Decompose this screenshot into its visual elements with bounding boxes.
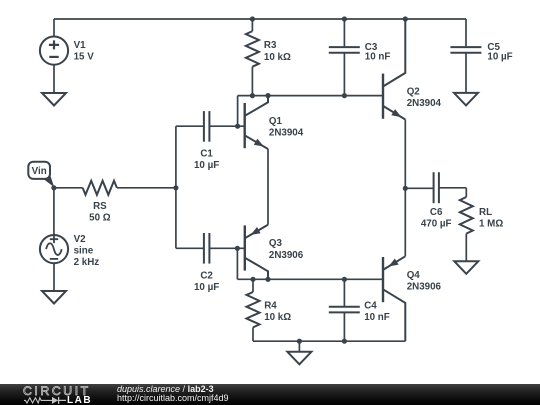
svg-text:2N3904: 2N3904	[269, 128, 304, 139]
wire link to C2	[176, 247, 204, 249]
wire link to C1	[176, 125, 204, 127]
wire V2 to ground	[53, 263, 55, 291]
wire C4 to bottom rail	[343, 312, 345, 341]
ground below V1	[42, 93, 66, 106]
svg-text:10 µF: 10 µF	[194, 160, 219, 171]
svg-text:C2: C2	[200, 270, 213, 281]
svg-text:Vin: Vin	[32, 166, 47, 177]
transistor Q1	[245, 96, 268, 149]
resistor RL	[460, 197, 473, 234]
svg-text:RS: RS	[93, 201, 107, 212]
svg-text:R3: R3	[264, 40, 277, 51]
capacitor C3	[329, 47, 360, 53]
wire V1 to ground	[53, 65, 55, 93]
label C6	[421, 207, 452, 230]
ground below RL	[454, 261, 478, 274]
node mid rail at R3	[250, 93, 255, 98]
flag Vin	[28, 162, 54, 188]
node top rail at R3	[250, 16, 255, 21]
transistor Q3	[245, 225, 268, 280]
wire rail to R4	[252, 279, 254, 292]
voltage source V1	[40, 37, 68, 65]
svg-text:LAB: LAB	[67, 395, 92, 405]
svg-text:10 kΩ: 10 kΩ	[264, 312, 291, 323]
node Vin	[51, 185, 56, 190]
wire mid rail	[238, 95, 383, 97]
label C2	[194, 270, 219, 293]
label Q4	[407, 270, 442, 293]
wire V1 to rail	[53, 19, 55, 37]
svg-text:R4: R4	[264, 300, 277, 311]
resistor R4	[247, 292, 260, 327]
label Q2	[407, 86, 442, 109]
node lower rail at R4	[250, 277, 255, 282]
resistor R3	[246, 31, 259, 67]
label C4	[364, 300, 390, 323]
node top rail at Q2 collector	[403, 16, 408, 21]
svg-text:50 Ω: 50 Ω	[89, 213, 111, 224]
svg-text:10 µF: 10 µF	[194, 282, 219, 293]
wire Q2 emitter to Q4 emitter	[404, 120, 406, 257]
voltage source V2	[40, 235, 68, 263]
capacitor C4	[329, 307, 360, 313]
capacitor C2	[204, 233, 210, 264]
wire output to C6	[405, 187, 433, 189]
node bottom rail ground	[297, 339, 302, 344]
wire lower rail	[237, 278, 383, 280]
svg-text:V1: V1	[74, 40, 87, 51]
wire top supply rail	[54, 18, 466, 20]
transistor Q2	[383, 19, 405, 120]
label R4	[264, 300, 291, 323]
wire rail to C4	[343, 279, 345, 306]
svg-text:2N3906: 2N3906	[269, 250, 304, 261]
svg-text:15 V: 15 V	[74, 52, 95, 63]
ground below C5	[454, 93, 478, 106]
wire rail to C3	[343, 19, 345, 47]
wire C5 to ground	[465, 53, 467, 93]
capacitor C6	[434, 172, 439, 203]
wire rail to R3	[251, 19, 253, 31]
node mid rail at C3	[342, 93, 347, 98]
CircuitLab logo	[22, 385, 100, 405]
wire C6 to RL	[439, 187, 466, 189]
transistor Q4	[383, 256, 405, 341]
svg-text:1 MΩ: 1 MΩ	[479, 219, 503, 230]
wire Q1 emitter to Q3 emitter	[267, 149, 269, 225]
wire RL to ground	[465, 234, 467, 262]
svg-text:RL: RL	[479, 207, 492, 218]
svg-text:C4: C4	[364, 300, 377, 311]
label C1	[194, 148, 219, 171]
svg-text:V2: V2	[74, 234, 87, 245]
wire mid rail to Q1 base	[237, 96, 239, 127]
svg-text:10 nF: 10 nF	[364, 312, 390, 323]
wire C6 to RL resistor	[465, 188, 467, 197]
svg-text:Q3: Q3	[269, 238, 283, 249]
svg-text:10 kΩ: 10 kΩ	[264, 52, 291, 63]
node mid rail at Q1 collector	[265, 93, 270, 98]
label Q1	[269, 116, 304, 139]
wire Q3 base tie	[236, 248, 238, 279]
label C3	[365, 42, 391, 63]
svg-text:sine: sine	[74, 245, 94, 256]
ground below bottom rail	[287, 352, 311, 365]
label V2	[74, 234, 100, 268]
wire C1 to Q1 base	[209, 125, 244, 127]
label V1	[74, 40, 95, 63]
node bottom rail at C4	[342, 339, 347, 344]
resistor RS	[83, 181, 117, 195]
svg-text:2N3906: 2N3906	[407, 282, 442, 293]
svg-text:2 kHz: 2 kHz	[74, 257, 100, 268]
svg-text:C1: C1	[200, 148, 213, 159]
svg-text:470 µF: 470 µF	[421, 219, 452, 230]
wire R4 to bottom rail	[252, 327, 254, 341]
node input link	[173, 185, 178, 190]
label Q3	[269, 238, 304, 261]
wire bottom rail	[253, 340, 405, 342]
node Q1 base tie	[235, 124, 240, 129]
svg-text:C6: C6	[430, 207, 443, 218]
wire Vin to RS	[54, 187, 83, 189]
ground below V2	[42, 291, 66, 304]
node lower rail at Q3 collector	[265, 277, 270, 282]
node lower rail at C4	[342, 277, 347, 282]
wire RS to link	[117, 187, 176, 189]
wire input link	[175, 126, 177, 248]
svg-text:10 µF: 10 µF	[487, 52, 512, 63]
label R3	[264, 40, 291, 63]
wire rail to C5	[465, 19, 467, 47]
capacitor C1	[204, 111, 210, 142]
wire C2 to Q3 base	[209, 247, 244, 249]
label RL	[479, 207, 503, 230]
svg-text:10 nF: 10 nF	[365, 52, 391, 63]
label RS	[89, 201, 111, 224]
wire Vin to V2	[53, 188, 55, 235]
node top rail at C3	[342, 16, 347, 21]
footer credit text	[117, 385, 229, 403]
svg-text:Q4: Q4	[407, 270, 421, 281]
svg-text:Q1: Q1	[269, 116, 283, 127]
label C5	[487, 42, 512, 63]
wire R3 to mid rail	[251, 67, 253, 96]
wire ground tap	[298, 341, 300, 352]
wire C3 to mid rail	[343, 53, 345, 96]
svg-text:2N3904: 2N3904	[407, 98, 442, 109]
node Q3 base tie	[235, 246, 240, 251]
svg-text:Q2: Q2	[407, 86, 421, 97]
node output at Q2 emitter	[403, 186, 408, 191]
capacitor C5	[450, 47, 481, 53]
